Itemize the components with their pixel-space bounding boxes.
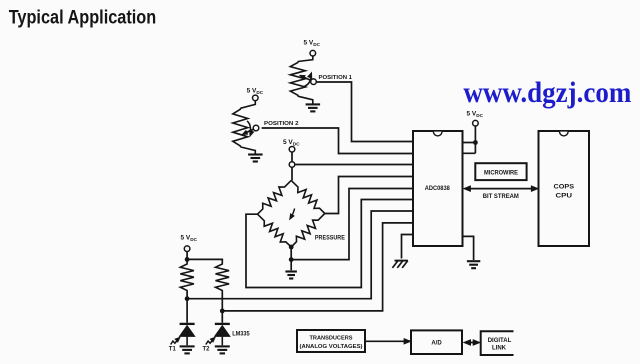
svg-text:5 VDC: 5 VDC [283,139,300,147]
svg-text:TRANSDUCERS: TRANSDUCERS [310,335,353,341]
svg-text:A/D: A/D [431,341,442,347]
svg-text:ADC0838: ADC0838 [425,186,451,192]
svg-text:POSITION 1: POSITION 1 [319,75,353,81]
svg-text:POSITION 2: POSITION 2 [264,121,299,127]
svg-text:(ANALOG VOLTAGES): (ANALOG VOLTAGES) [300,344,363,350]
svg-text:T1: T1 [169,346,176,353]
svg-text:www.dgzj.com: www.dgzj.com [463,77,631,109]
svg-text:MICROWIRE: MICROWIRE [484,170,518,176]
svg-text:T2: T2 [203,346,210,353]
svg-text:LM335: LM335 [232,331,250,338]
svg-text:CPU: CPU [556,193,573,200]
svg-text:PRESSURE: PRESSURE [315,234,345,241]
svg-text:COPS: COPS [554,183,575,190]
svg-text:5 VDC: 5 VDC [304,39,321,47]
svg-text:LINK: LINK [492,346,507,352]
svg-text:BIT STREAM: BIT STREAM [483,193,519,200]
svg-text:5 VDC: 5 VDC [181,235,198,243]
svg-text:DIGITAL: DIGITAL [488,338,512,344]
svg-text:Typical Application: Typical Application [9,7,157,28]
svg-text:5 VDC: 5 VDC [467,111,484,119]
svg-text:5 VDC: 5 VDC [247,88,264,96]
